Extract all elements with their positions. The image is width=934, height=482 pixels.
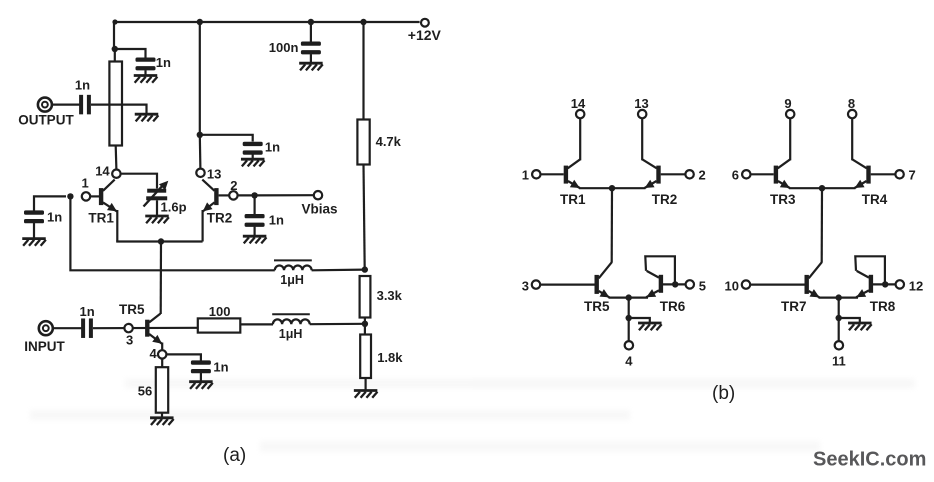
inductor 1uH (upper feedback) — [274, 260, 312, 286]
node pin 7 — [895, 168, 915, 183]
transistor TR4 — [852, 159, 888, 207]
+12V supply terminal — [408, 19, 442, 43]
svg-text:1: 1 — [82, 176, 89, 191]
capacitor 100n (supply decoupling) — [269, 40, 321, 55]
wire lower coil to divider junction — [310, 323, 365, 326]
capacitor 1n (TR2 collector decoupling) — [243, 140, 280, 155]
wire node-1 junction to base bypass cap — [34, 196, 66, 210]
wire resistor bottom to pin 14 — [115, 146, 118, 170]
node pin 13 — [196, 167, 221, 182]
svg-text:OUTPUT: OUTPUT — [18, 113, 74, 128]
svg-text:Vbias: Vbias — [302, 202, 338, 217]
wire TR2 base to pin 2 — [661, 173, 686, 175]
transistor TR1 — [560, 159, 586, 207]
resistor 1.8k — [360, 335, 403, 379]
wire pin 1 to TR1 base — [541, 173, 564, 175]
node pin 5 — [686, 279, 706, 294]
transistor TR5 — [119, 302, 162, 351]
wire 100n to ground — [310, 54, 312, 63]
node pin 3 — [522, 279, 540, 294]
ground (TR2 collector cap) — [241, 159, 265, 166]
svg-text:9: 9 — [784, 96, 791, 111]
svg-text:6: 6 — [732, 168, 739, 183]
svg-text:4: 4 — [150, 346, 158, 361]
node junction common emitters — [158, 238, 164, 244]
ground (Vbias cap) — [243, 236, 267, 243]
ground (right pair) — [848, 323, 872, 330]
node junction node-1 branch — [67, 193, 73, 199]
node junction TR8 base/collector tie — [882, 281, 888, 287]
wire junction to ground — [629, 318, 650, 323]
capacitor 1n (output coupling) — [75, 78, 91, 115]
svg-text:8: 8 — [848, 96, 855, 111]
wire input cap to node 3 and TR5 base — [93, 327, 198, 330]
wire pin 9 to TR3 collector — [789, 118, 791, 160]
watermark SeekIC.com — [813, 449, 926, 471]
resistor 100 (base series) — [198, 304, 241, 333]
wire node-1 junction down and right to coil — [70, 196, 274, 270]
wire +12V top supply rail — [114, 21, 420, 23]
wire emitters junction to pin 4 node — [628, 298, 630, 341]
ground (output tap) — [135, 114, 159, 121]
svg-text:TR4: TR4 — [862, 192, 888, 207]
trimmer capacitor 1.6p — [144, 181, 187, 215]
wire TR6 collector-base loop — [645, 256, 675, 284]
ground (100n) — [299, 63, 323, 70]
ground (divider) — [354, 391, 378, 398]
resistor tank (vertical, untagged) — [109, 62, 122, 146]
wire emitters junction to TR5 collector — [611, 188, 613, 263]
wire emitter cap to ground — [200, 373, 202, 382]
node junction feedback (4.7k/3.3k/coil) — [362, 266, 368, 272]
wire 100 resistor to lower coil — [240, 323, 273, 325]
svg-text:1n: 1n — [213, 360, 228, 375]
label (b) — [712, 383, 735, 404]
svg-text:11: 11 — [832, 353, 846, 368]
svg-text:2: 2 — [699, 168, 706, 183]
wire TR8 base to pin 12 — [873, 283, 896, 285]
svg-text:+12V: +12V — [408, 27, 442, 43]
transistor TR2 — [202, 180, 232, 242]
wire rail to 4.7k — [362, 22, 364, 120]
svg-text:1n: 1n — [80, 304, 95, 319]
svg-text:1.8k: 1.8k — [377, 350, 403, 365]
svg-text:5: 5 — [699, 279, 706, 294]
node junction TR6 base/collector tie — [672, 281, 678, 287]
svg-text:2: 2 — [230, 178, 237, 193]
svg-text:TR5: TR5 — [119, 302, 145, 317]
node junction emitters TR3/TR4 — [819, 185, 825, 191]
node pin 11 — [832, 341, 846, 368]
capacitor 1n (top-left bypass) — [136, 55, 172, 70]
svg-text:3: 3 — [522, 279, 529, 294]
svg-text:1n: 1n — [269, 213, 284, 228]
wire pin 8 to TR4 collector — [851, 118, 853, 160]
svg-text:TR6: TR6 — [660, 299, 686, 314]
wire trimmer to ground — [156, 200, 158, 216]
wire node 4 to 56 resistor — [161, 359, 163, 368]
svg-text:14: 14 — [571, 96, 586, 111]
node junction divider (3.3k/1.8k/coil) — [362, 321, 368, 327]
wire common emitters TR1-TR2 — [116, 240, 202, 242]
ground (left pair) — [638, 323, 662, 330]
wire coil to feedback junction — [312, 269, 365, 272]
ground (top-left bypass cap) — [134, 76, 158, 83]
node junction emitters TR1/TR2 — [609, 185, 615, 191]
svg-text:3: 3 — [126, 333, 133, 348]
ground (TR1 base bypass cap) — [22, 239, 46, 246]
node junction Vbias bypass — [251, 192, 257, 198]
node 1 terminal — [82, 176, 91, 201]
wire node 4 to emitter bypass cap — [166, 354, 201, 360]
inductor 1uH (lower feedback) — [272, 314, 310, 341]
wire common emitters TR7-TR8 — [819, 297, 859, 299]
wire 1.8k to ground — [365, 378, 367, 390]
svg-text:12: 12 — [909, 279, 923, 294]
svg-text:1μH: 1μH — [280, 273, 304, 287]
wire emitters junction down to TR5 collector — [160, 242, 163, 315]
node pin 1 — [522, 168, 541, 183]
capacitor 1n (emitter bypass) — [191, 360, 229, 375]
wire cap to ground — [252, 154, 254, 159]
svg-text:1.6p: 1.6p — [161, 200, 187, 215]
wire TR6 base to pin 5 — [663, 283, 686, 285]
capacitor 1n (input coupling) — [80, 304, 95, 338]
svg-text:4: 4 — [625, 353, 633, 368]
transistor TR8 (diode connected) — [856, 271, 896, 314]
OUTPUT connector — [18, 98, 74, 128]
node pin 6 — [732, 168, 751, 183]
label (a) — [223, 445, 246, 466]
wire Vbias cap to ground — [254, 227, 256, 236]
node pin 14 — [571, 96, 586, 118]
node junction TR2 branch on rail — [197, 19, 203, 25]
node 3 terminal — [124, 324, 133, 348]
node pin 4 — [625, 341, 634, 368]
node pin 12 — [896, 279, 924, 294]
svg-text:13: 13 — [634, 96, 648, 111]
svg-text:1n: 1n — [47, 210, 62, 225]
wire common emitters TR1-TR2 — [579, 187, 646, 189]
wire junction to decoupling cap — [200, 135, 253, 142]
svg-text:(b): (b) — [712, 383, 735, 404]
transistor TR5 — [584, 262, 612, 314]
transistor TR2 — [642, 159, 677, 207]
svg-text:TR7: TR7 — [781, 299, 807, 314]
wire emitters junction to pin 11 node — [838, 298, 840, 341]
wire TR2 base to node 2 — [219, 194, 230, 196]
INPUT connector — [24, 321, 65, 354]
svg-text:SeekIC.com: SeekIC.com — [813, 449, 926, 471]
resistor 56 (emitter) — [138, 367, 168, 413]
wire top-rail drop to tank resistor — [112, 19, 117, 49]
svg-text:TR2: TR2 — [207, 211, 233, 226]
wire common emitters TR3-TR4 — [789, 187, 856, 189]
svg-text:1: 1 — [522, 168, 529, 183]
svg-text:1n: 1n — [265, 140, 280, 155]
wire junction to resistor top — [114, 49, 116, 62]
transistor TR6 (diode connected) — [646, 271, 686, 314]
wire node 1 to TR1 base — [90, 195, 99, 197]
node junction ground tap — [626, 315, 632, 321]
svg-text:1n: 1n — [156, 55, 171, 70]
svg-text:10: 10 — [725, 279, 739, 294]
wire pin 6 to TR3 base — [751, 173, 774, 175]
node junction 4.7k on rail — [360, 19, 366, 25]
capacitor 1n (Vbias bypass) — [245, 213, 284, 228]
node pin 10 — [725, 279, 751, 294]
svg-text:1μH: 1μH — [279, 327, 303, 341]
wire 4.7k to feedback node — [364, 165, 365, 270]
node pin 14 — [95, 164, 120, 179]
svg-text:TR5: TR5 — [584, 299, 610, 314]
svg-text:14: 14 — [95, 164, 110, 179]
wire pin 3 to TR5 base — [540, 284, 594, 286]
node 4 terminal — [150, 346, 167, 361]
resistor 3.3k — [360, 276, 403, 318]
wire pin-14 node to trimmer — [121, 174, 157, 189]
wire junction to ground — [839, 318, 860, 323]
svg-text:TR8: TR8 — [870, 299, 896, 314]
wire output cap to resistor tap and ground — [91, 105, 147, 114]
ground (56 resistor) — [150, 418, 174, 425]
ground (emitter bypass cap) — [189, 382, 213, 389]
node 2 terminal — [229, 178, 237, 200]
svg-text:4.7k: 4.7k — [376, 134, 402, 149]
wire pin 14 to TR1 collector — [579, 118, 581, 160]
transistor TR1 — [88, 180, 117, 242]
wire base bypass cap to ground — [33, 223, 35, 238]
svg-text:3.3k: 3.3k — [377, 288, 403, 303]
wire pin 13 to TR2 collector — [641, 118, 643, 160]
wire node 2 to Vbias terminal — [238, 194, 314, 196]
wire junction to Vbias cap — [254, 195, 256, 214]
svg-text:1n: 1n — [75, 78, 90, 93]
wire emitters junction to TR7 collector — [821, 188, 823, 263]
node pin 2 — [685, 168, 705, 183]
node junction emitters TR5/TR6 — [626, 294, 632, 300]
ground (trimmer 1.6p) — [145, 216, 169, 223]
node junction TR2 collector branch — [197, 132, 203, 138]
svg-text:100: 100 — [209, 304, 231, 319]
node pin 13 — [634, 96, 648, 118]
transistor TR7 — [781, 262, 822, 314]
resistor 4.7k — [357, 120, 401, 165]
svg-text:13: 13 — [207, 167, 221, 182]
svg-text:56: 56 — [138, 384, 152, 399]
node junction 100n on rail — [308, 19, 314, 25]
svg-text:100n: 100n — [269, 40, 299, 55]
svg-text:7: 7 — [909, 168, 916, 183]
wire 3.3k to divider junction — [364, 318, 366, 335]
wire rail to 100n cap — [310, 22, 312, 42]
node pin 8 — [848, 96, 857, 118]
capacitor 1n (TR1 base bypass) — [24, 210, 62, 225]
svg-text:TR3: TR3 — [770, 192, 796, 207]
svg-text:TR2: TR2 — [652, 192, 678, 207]
svg-text:INPUT: INPUT — [24, 339, 65, 354]
wire capacitor to ground — [144, 70, 146, 75]
node junction emitters TR7/TR8 — [836, 294, 842, 300]
wire 56 resistor to ground — [161, 413, 163, 418]
node pin 9 — [784, 96, 794, 118]
svg-text:TR1: TR1 — [560, 192, 586, 207]
wire pin 10 to TR7 base — [750, 284, 804, 286]
wire TR4 base to pin 7 — [871, 173, 896, 175]
svg-text:(a): (a) — [223, 445, 246, 466]
wire INPUT connector to coupling cap — [53, 327, 82, 329]
wire junction down to pin 13 — [199, 135, 202, 169]
Vbias terminal — [302, 191, 338, 217]
node junction ground tap — [836, 315, 842, 321]
wire common emitters TR5-TR6 — [609, 297, 649, 299]
wire OUTPUT connector to coupling cap — [52, 103, 80, 105]
transistor TR3 — [770, 159, 796, 207]
wire TR8 collector-base loop — [855, 256, 885, 284]
wire top-rail drop to TR2 branch — [199, 22, 201, 135]
svg-text:TR1: TR1 — [88, 211, 114, 226]
node junction top of tank resistor — [112, 46, 118, 52]
wire junction to bypass capacitor — [115, 49, 146, 58]
